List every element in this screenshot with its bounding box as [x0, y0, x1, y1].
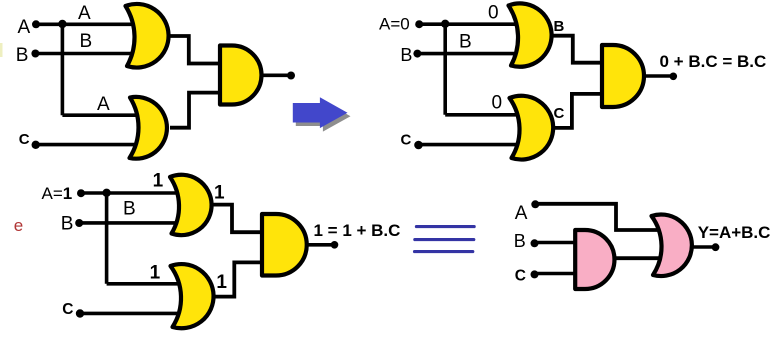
AND gate 3 (yellow)	[262, 214, 307, 276]
wire junction vertical to OR6 (circuit 3)	[105, 193, 109, 284]
wire C to AND4	[535, 272, 578, 276]
svg-text:A: A	[78, 3, 91, 24]
wire AND4 output to OR7	[614, 256, 660, 260]
wire junction vertical to OR4 (circuit 2)	[443, 24, 447, 115]
wire horizontal into OR4 (circuit 2)	[445, 113, 522, 117]
wire OR3 output to AND2	[551, 36, 604, 63]
svg-text:0 + B.C = B.C: 0 + B.C = B.C	[660, 52, 767, 71]
svg-text:B: B	[16, 45, 29, 66]
wire AND3 output	[307, 243, 335, 247]
output dot (circuit 2)	[670, 73, 678, 81]
stray yellow fragment at left edge	[0, 43, 3, 57]
input terminal dot A (circuit 2)	[415, 20, 423, 28]
equivalence line 3	[415, 250, 473, 253]
OR gate 2 (yellow)	[130, 97, 167, 159]
input terminal dot A (circuit 4)	[531, 200, 539, 208]
svg-text:A: A	[18, 17, 31, 38]
OR gate 6 (yellow)	[171, 264, 214, 328]
junction node on wire A	[58, 20, 66, 28]
wire C to OR4	[419, 143, 521, 147]
equivalence line 2	[415, 238, 474, 241]
input terminal dot B (circuit 2)	[413, 50, 421, 58]
wire A to OR1	[36, 22, 136, 26]
svg-text:C: C	[401, 132, 412, 149]
AND gate 1 (yellow)	[220, 46, 262, 105]
wire OR2 output to AND1	[170, 93, 222, 128]
OR gate 5 (yellow)	[170, 175, 212, 235]
svg-text:1: 1	[214, 182, 225, 203]
wire A to OR3	[419, 22, 518, 26]
input terminal dot A (circuit 1)	[32, 20, 40, 28]
wire OR4 output to AND2	[553, 94, 604, 128]
input terminal dot C (circuit 2)	[414, 141, 423, 150]
blue arrow shadow	[296, 101, 351, 132]
wire horizontal into OR2	[62, 113, 140, 117]
wire junction vertical A to OR2	[61, 24, 65, 115]
blue arrow	[293, 97, 348, 128]
AND gate 4 (pink)	[575, 230, 614, 289]
output dot (circuit 1)	[287, 72, 295, 80]
svg-text:1: 1	[216, 272, 227, 293]
svg-text:0: 0	[492, 93, 503, 114]
output dot (circuit 4)	[712, 243, 720, 251]
input terminal dot B (circuit 1)	[31, 50, 39, 58]
svg-text:B: B	[80, 31, 93, 52]
wire B to AND4	[535, 241, 578, 245]
svg-text:e: e	[14, 216, 23, 235]
junction node (circuit 2)	[441, 20, 449, 28]
wire C to OR6	[80, 312, 184, 316]
svg-text:B: B	[554, 18, 565, 35]
svg-text:B: B	[61, 214, 74, 235]
OR gate 7 (pink)	[652, 214, 692, 276]
input terminal dot A (circuit 3)	[77, 189, 85, 197]
AND gate 2 (yellow)	[602, 45, 644, 107]
input terminal dot B (circuit 3)	[75, 219, 83, 227]
svg-text:1: 1	[150, 263, 161, 284]
svg-text:1: 1	[153, 171, 164, 192]
svg-text:B: B	[123, 199, 136, 220]
svg-text:0: 0	[488, 2, 499, 23]
input terminal dot C (circuit 3)	[76, 309, 84, 317]
svg-text:1 = 1 + B.C: 1 = 1 + B.C	[314, 221, 401, 240]
svg-text:C: C	[554, 105, 565, 122]
wire horizontal into OR6 (circuit 3)	[107, 282, 182, 286]
output dot (circuit 3)	[331, 241, 339, 249]
svg-text:A: A	[97, 94, 110, 115]
svg-text:B: B	[514, 231, 526, 251]
junction node (circuit 3)	[102, 189, 110, 197]
wire OR5 output to AND3	[211, 205, 264, 233]
wire B to OR5	[79, 221, 180, 225]
OR gate 1 (yellow)	[126, 4, 169, 68]
svg-text:B: B	[400, 45, 412, 65]
wire OR1 output to AND1	[168, 36, 222, 64]
svg-text:C: C	[62, 301, 73, 318]
wire A to OR7	[535, 204, 658, 230]
wire AND2 output	[644, 74, 674, 78]
svg-text:A=0: A=0	[379, 14, 410, 33]
input terminal dot C (circuit 1)	[32, 141, 40, 149]
svg-text:B: B	[459, 32, 472, 53]
svg-text:Y=A+B.C: Y=A+B.C	[698, 223, 771, 242]
wire C to OR2	[36, 143, 140, 147]
OR gate 4 (yellow)	[510, 96, 554, 160]
wire OR6 output to AND3	[214, 262, 265, 296]
svg-text:A: A	[515, 203, 528, 224]
svg-text:C: C	[515, 267, 526, 284]
OR gate 3 (yellow)	[509, 3, 552, 66]
wire A to OR5	[81, 191, 180, 195]
svg-text:A=1: A=1	[42, 184, 73, 203]
input terminal dot C (circuit 4)	[531, 270, 539, 278]
wire B to OR1	[35, 52, 136, 56]
wire OR7 output	[691, 245, 716, 249]
svg-text:C: C	[19, 131, 30, 148]
wire AND1 output	[262, 74, 292, 78]
input terminal dot B (circuit 4)	[531, 239, 539, 247]
wire B to OR3	[417, 52, 518, 56]
equivalence line 1	[416, 225, 474, 228]
